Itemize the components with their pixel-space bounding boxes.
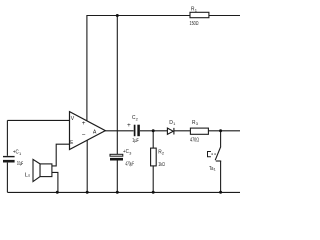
wire top rail right segment after R1: [209, 15, 240, 17]
svg-text:s: s: [28, 173, 30, 178]
capacitor C1 plates: [3, 157, 15, 162]
wire speaker bottom terminal to ground rail: [52, 172, 58, 192]
wire R2 branch top: [152, 131, 154, 148]
wire op-amp output to C2: [105, 130, 134, 132]
wire supply branch down to C3: [116, 16, 118, 155]
junction node on top rail at C3 branch: [116, 14, 119, 17]
wire C1 bottom to ground rail: [6, 163, 8, 193]
pushbutton Ta1 actuator bracket: [208, 152, 211, 157]
wire C2 to D1 anode, node at R2: [140, 130, 168, 132]
svg-text:V: V: [71, 116, 75, 122]
wire switch bottom to ground rail: [220, 161, 222, 192]
resistor R1 box: [190, 12, 209, 17]
junction node ground rail at switch: [219, 191, 222, 194]
wire op-amp inverting input to speaker top terminal: [52, 144, 70, 166]
svg-text:A: A: [93, 129, 97, 135]
junction node ground rail at R2: [152, 191, 155, 194]
svg-text:1µF: 1µF: [132, 138, 139, 144]
svg-text:+: +: [82, 120, 86, 127]
svg-text:+: +: [127, 122, 131, 129]
junction node ground rail at op-amp E pin: [86, 191, 89, 194]
svg-text:1kΩ: 1kΩ: [158, 162, 165, 168]
junction node output wire at R2 branch: [152, 129, 155, 132]
svg-text:+C: +C: [13, 149, 19, 155]
pushbutton Ta1 lower contact tick: [216, 160, 221, 162]
svg-text:+C: +C: [123, 149, 129, 155]
svg-text:150Ω: 150Ω: [190, 21, 199, 27]
diode D1: [167, 128, 174, 135]
op-amp U1 triangle: [70, 112, 106, 150]
junction node ground rail at C3: [116, 191, 119, 194]
wire op-amp ground pin E to rail: [86, 139, 88, 192]
resistor R3 box: [190, 128, 208, 134]
wire C3 bottom to ground rail: [116, 160, 118, 192]
speaker Ls box: [40, 164, 52, 177]
svg-text:10µF: 10µF: [17, 161, 23, 167]
capacitor C3 plates: [110, 154, 123, 159]
capacitor C2 plates: [135, 125, 139, 137]
wire + input horizontal to op-amp: [7, 119, 69, 121]
junction node output wire at switch branch: [219, 129, 222, 132]
wire R2 bottom to ground rail: [152, 166, 154, 192]
resistor R2 box: [151, 148, 157, 166]
wire D1 cathode to R3: [174, 130, 190, 132]
wire top rail left segment with corner down to op-amp V+ pin: [87, 16, 190, 123]
wire bottom ground rail: [7, 191, 240, 193]
svg-text:−: −: [82, 132, 86, 139]
svg-text:470µF: 470µF: [125, 162, 134, 168]
wire left input vertical from + input down to C1: [6, 120, 8, 155]
pushbutton Ta1 actuator dashed link: [211, 153, 216, 155]
svg-text:470Ω: 470Ω: [190, 138, 199, 144]
pushbutton Ta1 blade: [215, 147, 221, 161]
svg-text:E: E: [70, 140, 73, 146]
junction node ground rail at speaker: [56, 191, 59, 194]
wire switch branch top: [220, 131, 222, 147]
wire R3 to right edge output: [208, 130, 240, 132]
speaker Ls cone: [33, 159, 40, 181]
